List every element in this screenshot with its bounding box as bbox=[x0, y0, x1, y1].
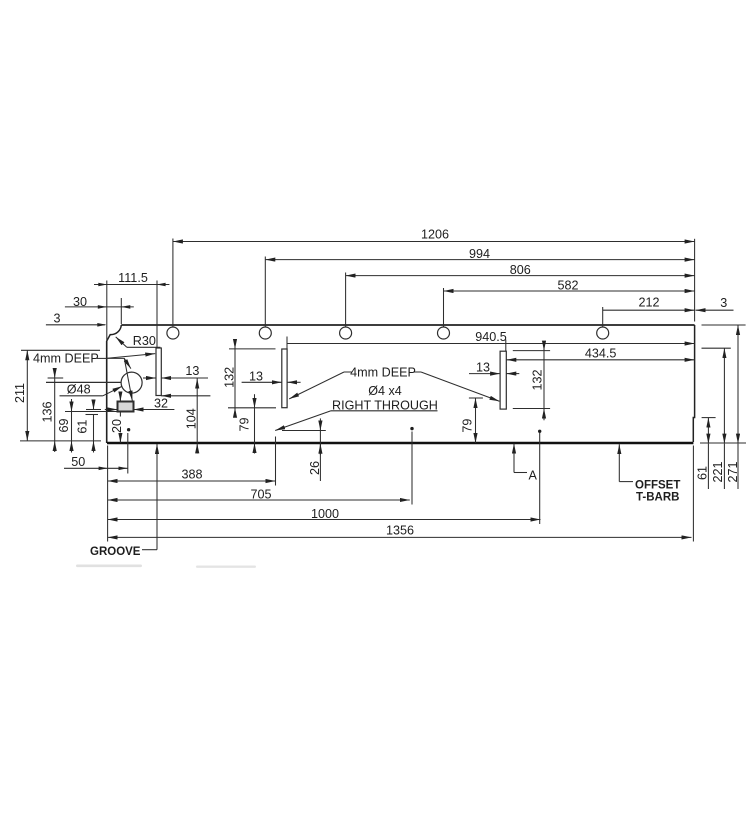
dim 582 bbox=[444, 290, 695, 292]
datum A leader bbox=[513, 444, 515, 473]
svg-text:1000: 1000 bbox=[311, 507, 339, 521]
svg-text:32: 32 bbox=[154, 396, 168, 410]
dim 13 slot1 bbox=[143, 377, 156, 379]
slot S2 bbox=[282, 349, 287, 408]
dim 50 arrows bbox=[99, 467, 108, 471]
dim 13 slot3 bbox=[469, 373, 500, 375]
svg-text:Ø4 x4: Ø4 x4 bbox=[368, 384, 402, 398]
hole H3 bbox=[340, 327, 352, 339]
groove leader bbox=[142, 549, 157, 551]
svg-text:994: 994 bbox=[469, 247, 490, 261]
svg-text:806: 806 bbox=[510, 263, 531, 277]
svg-text:T-BARB: T-BARB bbox=[636, 492, 679, 504]
svg-text:4mm DEEP: 4mm DEEP bbox=[350, 365, 416, 379]
svg-text:940.5: 940.5 bbox=[475, 330, 507, 344]
top right extension bbox=[702, 324, 746, 326]
scan smudge 2 bbox=[196, 566, 256, 568]
dim 271 bbox=[737, 325, 739, 444]
circle centerline bbox=[46, 381, 121, 383]
hole P3 bbox=[538, 430, 541, 433]
leader right through bbox=[331, 410, 438, 412]
dim 61 right bbox=[702, 417, 716, 419]
dim 1356 bbox=[108, 536, 692, 538]
dim 111.5 bbox=[94, 284, 169, 286]
dim 20 bbox=[119, 392, 121, 401]
dim 806 bbox=[346, 275, 695, 277]
dim 3 left arrow bbox=[97, 323, 106, 327]
svg-text:111.5: 111.5 bbox=[118, 271, 148, 285]
svg-text:582: 582 bbox=[557, 278, 578, 292]
svg-text:13: 13 bbox=[185, 364, 199, 378]
dim 30 bbox=[65, 306, 134, 308]
svg-text:132: 132 bbox=[223, 367, 237, 388]
dim 994 bbox=[265, 259, 694, 261]
dim 79 slot3 bbox=[469, 397, 483, 399]
extension slot3 top bbox=[505, 340, 507, 352]
extension 1000 bbox=[539, 433, 541, 524]
svg-text:Ø48: Ø48 bbox=[67, 382, 91, 396]
svg-text:211: 211 bbox=[13, 383, 27, 403]
svg-text:212: 212 bbox=[638, 296, 659, 310]
dim 1000 bbox=[108, 519, 541, 521]
svg-text:132: 132 bbox=[530, 369, 544, 390]
svg-text:26: 26 bbox=[308, 461, 322, 475]
hole H1 bbox=[167, 327, 179, 339]
leader 4mm deep right to slot3 bbox=[421, 372, 499, 401]
hole P1 bbox=[127, 428, 130, 431]
extension 1356 bbox=[692, 446, 694, 542]
groove square bbox=[118, 402, 134, 412]
svg-text:4mm DEEP: 4mm DEEP bbox=[33, 352, 99, 366]
hole centerline 26 bbox=[282, 430, 326, 432]
svg-text:271: 271 bbox=[726, 461, 740, 482]
svg-text:61: 61 bbox=[75, 420, 89, 434]
dim 388 bbox=[108, 480, 276, 482]
dim 705 bbox=[108, 499, 410, 501]
svg-text:434.5: 434.5 bbox=[585, 347, 617, 361]
dim 221 bbox=[702, 347, 731, 349]
hole H4 bbox=[438, 327, 450, 339]
svg-text:20: 20 bbox=[110, 419, 124, 433]
svg-text:1356: 1356 bbox=[386, 523, 414, 537]
dim 3 right bbox=[696, 309, 734, 311]
hole H2 bbox=[259, 327, 271, 339]
part left edge with step and R30 fillet bbox=[107, 325, 122, 341]
dim 30 arrows bbox=[98, 305, 107, 309]
dim 434.5 bbox=[506, 359, 694, 361]
dim 132 slot2 bbox=[229, 348, 276, 350]
leader D48 bbox=[60, 395, 103, 397]
left bottom reference tick bbox=[20, 440, 101, 442]
svg-text:79: 79 bbox=[238, 417, 252, 431]
part bottom edge bbox=[107, 442, 693, 445]
circle D48 bbox=[121, 372, 142, 393]
extension 388 bbox=[275, 437, 277, 486]
part right edge bbox=[693, 325, 694, 442]
bottom right extension bbox=[700, 442, 746, 444]
dim 79 slot2 bbox=[228, 407, 276, 409]
leader R30 bbox=[127, 346, 161, 348]
dim 211 bbox=[21, 349, 100, 351]
dim 940.5 bbox=[287, 343, 695, 345]
dim 61 left bbox=[86, 409, 101, 411]
svg-text:OFFSET: OFFSET bbox=[635, 480, 680, 492]
dim 13 slot2 bbox=[242, 381, 282, 383]
svg-text:R30: R30 bbox=[133, 334, 156, 348]
dim 136 bbox=[48, 377, 64, 379]
dim 50 bbox=[64, 467, 128, 469]
dim 26 bbox=[319, 418, 321, 430]
slot S1 bbox=[156, 348, 161, 396]
leader 4mm deep left bbox=[97, 357, 106, 359]
svg-text:13: 13 bbox=[476, 360, 490, 374]
svg-text:104: 104 bbox=[185, 408, 199, 429]
svg-text:1206: 1206 bbox=[421, 227, 449, 241]
dim 212 bbox=[603, 309, 695, 311]
svg-text:GROOVE: GROOVE bbox=[90, 546, 141, 558]
svg-text:388: 388 bbox=[181, 468, 202, 482]
dim 69 bbox=[65, 411, 117, 413]
hole P2 bbox=[410, 427, 413, 430]
svg-text:RIGHT THROUGH: RIGHT THROUGH bbox=[332, 398, 438, 412]
part top edge bbox=[121, 324, 694, 326]
extension 705 bbox=[411, 432, 413, 505]
svg-text:30: 30 bbox=[73, 295, 87, 309]
leader offset t-barb bbox=[619, 481, 633, 483]
hole H5 bbox=[597, 327, 609, 339]
svg-text:3: 3 bbox=[53, 311, 60, 325]
svg-text:136: 136 bbox=[41, 401, 55, 422]
dim 111.5 arrows bbox=[98, 283, 107, 287]
svg-text:13: 13 bbox=[249, 370, 263, 384]
svg-text:50: 50 bbox=[71, 455, 85, 469]
svg-text:A: A bbox=[529, 469, 538, 483]
svg-text:705: 705 bbox=[250, 487, 271, 501]
slot S3 bbox=[500, 351, 506, 409]
right extension above part bbox=[694, 239, 696, 322]
extension left edge below bbox=[107, 446, 109, 542]
dim 132 slot3 bbox=[543, 344, 545, 351]
svg-text:221: 221 bbox=[711, 461, 725, 482]
leader 4mm deep right to slot2 bbox=[344, 371, 421, 373]
svg-text:69: 69 bbox=[57, 418, 71, 432]
svg-text:61: 61 bbox=[695, 466, 709, 480]
svg-text:79: 79 bbox=[460, 419, 474, 433]
dim 32 bbox=[161, 395, 210, 397]
dim 1206 bbox=[173, 241, 695, 243]
dim 104 bbox=[196, 379, 198, 444]
dim 3 left bbox=[46, 324, 105, 326]
svg-text:3: 3 bbox=[720, 296, 727, 310]
scan smudge 1 bbox=[76, 565, 142, 568]
